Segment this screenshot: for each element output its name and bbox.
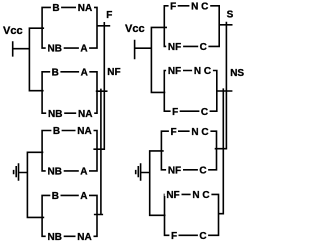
svg-text:C: C xyxy=(201,107,208,118)
svg-text:N C: N C xyxy=(191,1,208,12)
svg-text:F: F xyxy=(170,1,176,12)
svg-text:NF: NF xyxy=(166,190,179,201)
svg-text:NF: NF xyxy=(168,66,181,77)
svg-text:A: A xyxy=(80,44,87,55)
svg-text:A: A xyxy=(80,167,87,178)
svg-text:B: B xyxy=(52,67,59,78)
svg-text:Vcc: Vcc xyxy=(125,23,145,35)
svg-text:NA: NA xyxy=(78,3,92,14)
svg-text:NS: NS xyxy=(230,68,244,79)
svg-text:NA: NA xyxy=(77,232,91,243)
svg-text:F: F xyxy=(106,10,112,21)
svg-text:F: F xyxy=(170,127,176,138)
svg-text:B: B xyxy=(52,3,59,14)
svg-text:NF: NF xyxy=(168,42,181,53)
svg-text:B: B xyxy=(52,191,59,202)
svg-text:S: S xyxy=(227,9,234,20)
svg-text:N C: N C xyxy=(191,127,208,138)
svg-text:C: C xyxy=(199,231,206,242)
svg-text:F: F xyxy=(171,231,177,242)
svg-text:NB: NB xyxy=(47,232,61,243)
svg-text:F: F xyxy=(172,107,178,118)
svg-text:NB: NB xyxy=(48,109,62,120)
svg-text:B: B xyxy=(53,126,60,137)
svg-text:NF: NF xyxy=(168,165,181,176)
svg-text:A: A xyxy=(81,67,88,78)
svg-text:N C: N C xyxy=(194,66,211,77)
svg-text:N C: N C xyxy=(192,190,209,201)
svg-text:NA: NA xyxy=(77,126,91,137)
svg-text:NA: NA xyxy=(78,109,92,120)
svg-text:NF: NF xyxy=(107,67,120,78)
svg-text:NB: NB xyxy=(47,167,61,178)
svg-text:A: A xyxy=(80,191,87,202)
svg-text:NB: NB xyxy=(47,44,61,55)
svg-text:Vcc: Vcc xyxy=(3,25,23,37)
svg-text:C: C xyxy=(200,42,207,53)
svg-text:C: C xyxy=(199,165,206,176)
